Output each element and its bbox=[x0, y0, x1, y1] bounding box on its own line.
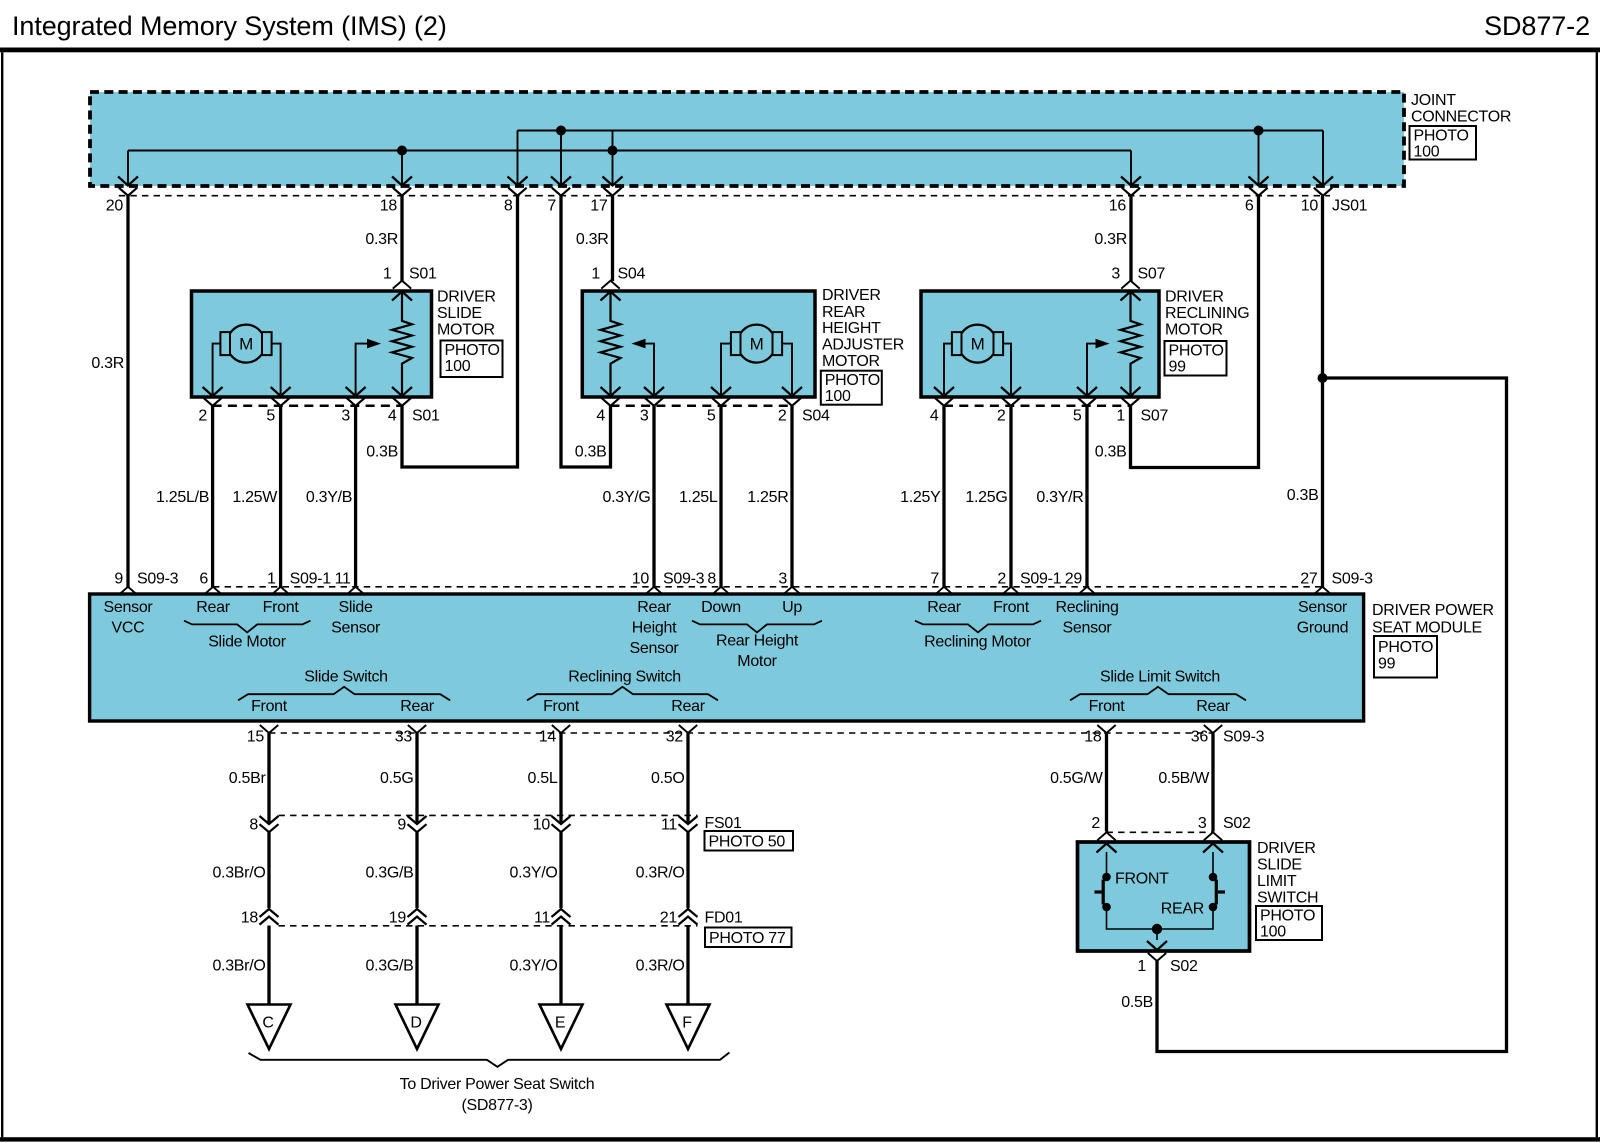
S01 bottom pin numbers 2 5 3 4 bbox=[198, 408, 397, 425]
svg-text:0.5L: 0.5L bbox=[528, 770, 558, 787]
svg-text:18: 18 bbox=[380, 198, 398, 215]
svg-text:5: 5 bbox=[266, 408, 275, 425]
svg-text:PHOTO: PHOTO bbox=[445, 342, 500, 359]
outer frame left border bbox=[1, 52, 3, 1137]
svg-text:3: 3 bbox=[1111, 266, 1120, 283]
svg-text:Sensor: Sensor bbox=[331, 620, 381, 637]
connector pin JS01-16 bbox=[1109, 151, 1141, 215]
brace slide switch bbox=[238, 687, 450, 701]
brace reclining motor bbox=[915, 621, 1041, 633]
svg-text:DRIVER: DRIVER bbox=[822, 287, 881, 304]
svg-text:0.3Y/O: 0.3Y/O bbox=[509, 865, 557, 882]
svg-text:Rear: Rear bbox=[1196, 698, 1230, 715]
wire S07 motor left lead bbox=[944, 344, 952, 394]
svg-text:9: 9 bbox=[114, 571, 123, 588]
FS01 mating dashed line bbox=[279, 814, 698, 816]
svg-text:Rear: Rear bbox=[400, 698, 434, 715]
svg-text:Rear: Rear bbox=[671, 698, 705, 715]
svg-text:0.3R: 0.3R bbox=[576, 231, 609, 248]
FS01 PHOTO 50 box bbox=[705, 831, 794, 851]
svg-text:S01: S01 bbox=[412, 408, 440, 425]
svg-text:REAR: REAR bbox=[822, 304, 865, 321]
svg-text:PHOTO: PHOTO bbox=[825, 372, 880, 389]
svg-text:1: 1 bbox=[383, 266, 392, 283]
svg-text:S09-3: S09-3 bbox=[663, 571, 705, 588]
wire S04 motor right lead bbox=[782, 344, 792, 394]
S01 PHOTO 100 box bbox=[441, 341, 503, 378]
S01 bottom mating tents and dashed line bbox=[203, 398, 411, 406]
svg-text:DRIVER: DRIVER bbox=[1257, 840, 1316, 857]
wire 0.3R JS01-18 to S01 pin 1 bbox=[400, 196, 403, 281]
S04 PHOTO 100 box bbox=[821, 371, 882, 405]
svg-text:99: 99 bbox=[1378, 656, 1396, 673]
svg-text:S07: S07 bbox=[1138, 266, 1166, 283]
wire 0.3Y/R to seat module bbox=[1085, 406, 1088, 587]
connector pins FD01-11 inline bbox=[534, 909, 571, 927]
label DRIVER RECLINING MOTOR bbox=[1165, 289, 1249, 339]
svg-text:D: D bbox=[410, 1015, 421, 1032]
svg-text:0.3Br/O: 0.3Br/O bbox=[212, 958, 265, 975]
connector pin S02-1 (bottom) bbox=[1137, 953, 1166, 975]
svg-text:0.3B: 0.3B bbox=[1095, 444, 1127, 461]
junction dot bus upper at pin 6 bbox=[1254, 126, 1264, 136]
driver rear height adjuster motor S04 box bbox=[582, 291, 815, 397]
svg-text:Sensor: Sensor bbox=[1298, 599, 1348, 616]
S07 bottom pin numbers 4 2 5 1 bbox=[930, 408, 1126, 425]
connector pin S01-1 (top) bbox=[383, 266, 412, 301]
wire 1.25L/B to seat module bbox=[211, 406, 214, 587]
S04 bottom inner arrowheads pins 4,3,5,2 bbox=[601, 387, 803, 396]
svg-text:100: 100 bbox=[445, 358, 471, 375]
svg-text:JS01: JS01 bbox=[1332, 198, 1368, 215]
svg-text:FS01: FS01 bbox=[705, 815, 742, 832]
wire 0.3Y/B to seat module bbox=[354, 406, 357, 587]
connector pin JS01-7 bbox=[547, 131, 571, 215]
svg-text:LIMIT: LIMIT bbox=[1257, 873, 1297, 890]
label DRIVER REAR HEIGHT ADJUSTER MOTOR bbox=[822, 287, 904, 370]
connector pin S09 module top pin 3 bbox=[778, 571, 801, 595]
svg-text:1: 1 bbox=[1116, 408, 1125, 425]
wire 0.5O module to FS01 bbox=[686, 733, 689, 823]
junction dot bus upper at pin 7 bbox=[556, 126, 566, 136]
svg-text:7: 7 bbox=[930, 571, 939, 588]
svg-text:ADJUSTER: ADJUSTER bbox=[822, 337, 904, 354]
module label Slide Sensor bbox=[331, 599, 381, 637]
svg-text:S09-3: S09-3 bbox=[1223, 729, 1265, 746]
connector pin S09 module top pin 8 bbox=[707, 571, 730, 595]
svg-text:20: 20 bbox=[106, 198, 124, 215]
wire 0.3R JS01-16 to S07 pin 3 bbox=[1129, 196, 1132, 281]
wire 0.3B branch to right side down to S02 pin 1 bbox=[1157, 378, 1507, 1052]
svg-text:Ground: Ground bbox=[1297, 620, 1349, 637]
svg-text:2: 2 bbox=[778, 408, 787, 425]
svg-text:11: 11 bbox=[534, 910, 550, 927]
svg-text:3: 3 bbox=[341, 408, 350, 425]
svg-text:100: 100 bbox=[1414, 144, 1440, 161]
brace slide motor bbox=[184, 621, 310, 633]
connector pins FS01-8 inline bbox=[249, 816, 278, 834]
connector pins FD01-18 inline bbox=[241, 909, 279, 927]
svg-text:RECLINING: RECLINING bbox=[1165, 305, 1249, 322]
wire 0.5G/W module 18 to S02 pin 2 bbox=[1105, 733, 1108, 832]
svg-text:Reclining Motor: Reclining Motor bbox=[924, 634, 1032, 651]
wire S01 motor left lead bbox=[213, 344, 221, 394]
wire 0.5B/W module 36 to S02 pin 3 bbox=[1211, 733, 1214, 832]
connector pins FS01-11 inline bbox=[661, 816, 698, 834]
svg-text:1: 1 bbox=[267, 571, 276, 588]
connector pin S02-3 (top) bbox=[1198, 815, 1223, 853]
svg-text:100: 100 bbox=[825, 388, 851, 405]
svg-text:0.5B: 0.5B bbox=[1121, 994, 1153, 1011]
svg-text:Front: Front bbox=[543, 698, 580, 715]
module top mating dashed line pins 6 to 27 bbox=[213, 586, 1323, 588]
module label Rear Height Sensor bbox=[630, 599, 680, 657]
joint connector mating dashed line bbox=[119, 195, 1330, 197]
wire 0.3B JS01-6 to S07 pin 1 bbox=[1131, 196, 1259, 468]
svg-text:2: 2 bbox=[997, 408, 1006, 425]
svg-text:M: M bbox=[971, 335, 985, 354]
FD01 mating dashed line bbox=[279, 925, 698, 927]
title divider line bbox=[0, 48, 1600, 53]
wire 0.3Y/O FS01 to FD01 bbox=[559, 832, 562, 908]
svg-text:10: 10 bbox=[1301, 198, 1319, 215]
resistor position-sensor element S04 bbox=[601, 293, 621, 395]
connector pins FS01-10 inline bbox=[533, 816, 571, 834]
svg-text:1: 1 bbox=[1137, 958, 1146, 975]
svg-text:Integrated Memory System (IMS): Integrated Memory System (IMS) (2) bbox=[12, 11, 447, 41]
svg-text:PHOTO 50: PHOTO 50 bbox=[709, 834, 786, 851]
svg-text:To Driver Power Seat Switch: To Driver Power Seat Switch bbox=[400, 1076, 595, 1093]
svg-text:S09-1: S09-1 bbox=[1020, 571, 1062, 588]
svg-text:S09-3: S09-3 bbox=[1332, 571, 1374, 588]
svg-text:E: E bbox=[555, 1015, 565, 1032]
brace rear height motor bbox=[692, 621, 822, 633]
outer frame right border bbox=[1596, 52, 1598, 1137]
connector pins FD01-21 inline bbox=[660, 909, 698, 927]
svg-text:Slide Limit Switch: Slide Limit Switch bbox=[1100, 669, 1220, 686]
svg-text:MOTOR: MOTOR bbox=[822, 353, 880, 370]
svg-text:29: 29 bbox=[1065, 571, 1083, 588]
connector pin S09 module top pin 27 bbox=[1300, 571, 1331, 595]
svg-text:0.3R/O: 0.3R/O bbox=[636, 865, 685, 882]
svg-text:21: 21 bbox=[660, 910, 678, 927]
wire 0.5L module to FS01 bbox=[559, 733, 562, 823]
connector pin S09-3 module bottom pin 18 bbox=[1084, 725, 1115, 746]
svg-text:6: 6 bbox=[1245, 198, 1254, 215]
connector pin JS01-6 bbox=[1245, 131, 1269, 215]
svg-text:FRONT: FRONT bbox=[1115, 871, 1169, 888]
svg-text:S09-3: S09-3 bbox=[137, 571, 179, 588]
svg-text:2: 2 bbox=[198, 408, 207, 425]
wire 0.5G module to FS01 bbox=[415, 733, 418, 823]
svg-text:16: 16 bbox=[1109, 198, 1127, 215]
connector pin S09 module top pin 10 bbox=[632, 571, 663, 595]
junction dot S02 bbox=[1152, 924, 1162, 934]
svg-text:PHOTO 77: PHOTO 77 bbox=[709, 930, 786, 947]
svg-text:0.3R: 0.3R bbox=[365, 231, 398, 248]
svg-text:2: 2 bbox=[997, 571, 1006, 588]
wire 0.3B JS01-10 to module pin 27 bbox=[1321, 196, 1324, 587]
connector pin S07-3 (top) bbox=[1111, 266, 1140, 301]
svg-text:11: 11 bbox=[335, 571, 351, 588]
svg-text:19: 19 bbox=[389, 910, 407, 927]
svg-text:Front: Front bbox=[993, 599, 1030, 616]
svg-text:Up: Up bbox=[782, 599, 802, 616]
svg-text:4: 4 bbox=[930, 408, 939, 425]
brace to driver power seat switch bbox=[249, 1053, 730, 1067]
svg-text:1.25L/B: 1.25L/B bbox=[156, 489, 209, 506]
svg-text:14: 14 bbox=[539, 729, 557, 746]
svg-text:0.3G/B: 0.3G/B bbox=[365, 865, 413, 882]
svg-text:0.3B: 0.3B bbox=[366, 444, 398, 461]
svg-text:9: 9 bbox=[397, 817, 406, 834]
svg-text:Front: Front bbox=[251, 698, 288, 715]
S04 bottom mating tents and dashed line bbox=[601, 398, 801, 406]
svg-text:SD877-2: SD877-2 bbox=[1484, 11, 1590, 41]
svg-text:C: C bbox=[262, 1015, 273, 1032]
svg-text:10: 10 bbox=[632, 571, 650, 588]
wire 1.25Y to seat module bbox=[942, 406, 945, 587]
svg-text:8: 8 bbox=[707, 571, 716, 588]
wire 1.25G to seat module bbox=[1009, 406, 1012, 587]
svg-text:0.3Y/R: 0.3Y/R bbox=[1036, 489, 1083, 506]
driver power seat module box bbox=[90, 594, 1364, 721]
S07 bottom mating tents and dashed line bbox=[935, 398, 1140, 406]
svg-text:Slide Switch: Slide Switch bbox=[304, 669, 388, 686]
svg-text:4: 4 bbox=[388, 408, 397, 425]
connector pin S09 module top pin 7 bbox=[930, 571, 953, 595]
joint connector JS01 box bbox=[90, 92, 1404, 186]
connector pin S09-3 module bottom pin 32 bbox=[666, 725, 697, 746]
svg-text:CONNECTOR: CONNECTOR bbox=[1411, 109, 1511, 126]
S02 top mating dashed line bbox=[1107, 831, 1214, 833]
S02 pin1 inner arrowhead bbox=[1147, 941, 1167, 950]
wire S04 motor left lead bbox=[721, 344, 731, 394]
svg-text:0.3Y/B: 0.3Y/B bbox=[306, 489, 352, 506]
svg-text:8: 8 bbox=[249, 817, 258, 834]
svg-text:5: 5 bbox=[707, 408, 716, 425]
connector pin JS01-8 bbox=[504, 131, 528, 215]
label DRIVER SLIDE MOTOR bbox=[437, 289, 496, 339]
svg-text:Sensor: Sensor bbox=[104, 599, 154, 616]
connector pin S09 module top pin 2 bbox=[997, 571, 1020, 595]
connector pin S09 module top pin 1 bbox=[267, 571, 290, 595]
svg-text:0.5Br: 0.5Br bbox=[229, 770, 267, 787]
connector pin S09-3 module bottom pin 14 bbox=[539, 725, 570, 746]
driver slide limit switch S02 box bbox=[1078, 842, 1250, 951]
svg-text:S02: S02 bbox=[1223, 815, 1251, 832]
wire 0.3B JS01-8 to S01 pin 4 bbox=[402, 196, 518, 467]
S01 bottom inner arrowheads pins 2,5,3,4 bbox=[203, 387, 412, 396]
connector pin S09 module top pin 11 bbox=[335, 571, 365, 595]
svg-text:0.3B: 0.3B bbox=[1287, 487, 1319, 504]
svg-text:3: 3 bbox=[640, 408, 649, 425]
module bottom mating dashed line bbox=[269, 732, 1213, 734]
svg-text:0.3G/B: 0.3G/B bbox=[365, 958, 413, 975]
svg-text:SEAT MODULE: SEAT MODULE bbox=[1372, 620, 1482, 637]
module label Rear Height Motor bbox=[716, 633, 799, 671]
off-page triangle connector C bbox=[248, 1005, 291, 1050]
connector pin S02-2 (top) bbox=[1091, 815, 1116, 853]
svg-text:Rear: Rear bbox=[927, 599, 961, 616]
S04 bottom pin numbers 4 3 5 2 bbox=[596, 408, 787, 425]
svg-text:3: 3 bbox=[1198, 815, 1207, 832]
svg-text:11: 11 bbox=[661, 817, 677, 834]
off-page triangle connector D bbox=[396, 1005, 439, 1050]
svg-text:0.3R: 0.3R bbox=[91, 355, 124, 372]
connector pin JS01-10 bbox=[1301, 131, 1333, 215]
svg-text:S04: S04 bbox=[618, 266, 646, 283]
svg-text:Sensor: Sensor bbox=[1063, 620, 1113, 637]
svg-text:Slide: Slide bbox=[339, 599, 373, 616]
wiper arrow S01 bbox=[356, 344, 368, 394]
svg-text:15: 15 bbox=[247, 729, 265, 746]
wire 0.3Br/O FS01 to FD01 bbox=[267, 832, 270, 908]
svg-text:0.3B: 0.3B bbox=[575, 444, 607, 461]
svg-text:Rear: Rear bbox=[196, 599, 230, 616]
svg-text:7: 7 bbox=[547, 198, 556, 215]
svg-text:33: 33 bbox=[395, 729, 413, 746]
resistor position-sensor element S07 bbox=[1121, 293, 1141, 395]
brace slide limit switch bbox=[1070, 687, 1246, 701]
svg-text:F: F bbox=[682, 1015, 692, 1032]
svg-text:PHOTO: PHOTO bbox=[1169, 343, 1224, 360]
svg-text:100: 100 bbox=[1260, 924, 1286, 941]
svg-text:0.5G/W: 0.5G/W bbox=[1050, 770, 1104, 787]
svg-text:1.25G: 1.25G bbox=[965, 489, 1007, 506]
junction dot sensor-ground branch bbox=[1318, 373, 1328, 383]
connector pin JS01-17 bbox=[590, 131, 622, 215]
junction dot bus lower at pin 18 bbox=[397, 146, 407, 156]
svg-text:S07: S07 bbox=[1141, 408, 1169, 425]
resistor position-sensor element S01 bbox=[392, 293, 412, 395]
svg-text:DRIVER: DRIVER bbox=[1165, 289, 1224, 306]
svg-text:Height: Height bbox=[632, 620, 677, 637]
svg-text:10: 10 bbox=[533, 817, 551, 834]
svg-text:17: 17 bbox=[590, 198, 608, 215]
svg-text:S01: S01 bbox=[409, 266, 437, 283]
svg-text:1.25Y: 1.25Y bbox=[900, 489, 941, 506]
svg-text:1.25R: 1.25R bbox=[747, 489, 788, 506]
svg-text:MOTOR: MOTOR bbox=[437, 322, 495, 339]
switch REAR limit switch bbox=[1209, 852, 1225, 911]
svg-text:S04: S04 bbox=[802, 408, 830, 425]
svg-text:S09-1: S09-1 bbox=[290, 571, 332, 588]
svg-text:0.3R: 0.3R bbox=[1094, 231, 1127, 248]
junction dot bus lower at pin 17 bbox=[608, 146, 618, 156]
off-page triangle connector E bbox=[540, 1005, 583, 1050]
svg-text:18: 18 bbox=[241, 910, 259, 927]
svg-text:M: M bbox=[750, 335, 764, 354]
svg-text:27: 27 bbox=[1300, 571, 1318, 588]
svg-text:Front: Front bbox=[1089, 698, 1126, 715]
wire JS01 internal bus upper (pins 8-7-6-10) bbox=[518, 130, 1324, 132]
connector pin S09 module top pin 6 bbox=[199, 571, 222, 595]
svg-text:(SD877-3): (SD877-3) bbox=[461, 1097, 532, 1114]
svg-text:0.5B/W: 0.5B/W bbox=[1158, 770, 1210, 787]
svg-text:2: 2 bbox=[1091, 815, 1100, 832]
svg-text:Down: Down bbox=[701, 599, 741, 616]
connector pin S09 module top pin 29 bbox=[1065, 571, 1096, 595]
label DRIVER POWER SEAT MODULE bbox=[1372, 602, 1494, 637]
driver slide motor S01 box bbox=[192, 291, 432, 397]
wiper arrow S07 bbox=[1087, 344, 1096, 394]
svg-text:6: 6 bbox=[199, 571, 208, 588]
wire 0.3R JS01-20 to module pin 9 bbox=[126, 196, 129, 587]
driver reclining motor S07 box bbox=[921, 291, 1159, 397]
wire S01 motor right lead bbox=[272, 344, 281, 394]
svg-text:8: 8 bbox=[504, 198, 513, 215]
svg-text:1.25W: 1.25W bbox=[232, 489, 278, 506]
svg-text:Front: Front bbox=[263, 599, 300, 616]
svg-text:M: M bbox=[239, 335, 253, 354]
svg-text:Motor: Motor bbox=[737, 653, 777, 670]
wire 0.3R/O FS01 to FD01 bbox=[686, 832, 689, 908]
wire 1.25L to seat module bbox=[719, 406, 722, 587]
motor M symbol S04 bbox=[731, 325, 782, 363]
svg-text:0.5O: 0.5O bbox=[651, 770, 685, 787]
svg-text:0.3Y/O: 0.3Y/O bbox=[509, 958, 557, 975]
svg-text:PHOTO: PHOTO bbox=[1378, 639, 1433, 656]
wire JS01 internal bus lower (pins 20-18-17-16) bbox=[128, 150, 1131, 152]
wire 0.5Br module to FS01 bbox=[267, 733, 270, 823]
S02 PHOTO 100 box bbox=[1256, 906, 1322, 940]
svg-text:PHOTO: PHOTO bbox=[1414, 128, 1469, 145]
FD01 PHOTO 77 box bbox=[705, 928, 792, 948]
svg-text:VCC: VCC bbox=[112, 620, 145, 637]
connector pin S09 module top pin 9 bbox=[114, 571, 137, 595]
switch FRONT limit switch bbox=[1095, 852, 1111, 911]
brace reclining switch bbox=[527, 687, 718, 701]
svg-text:REAR: REAR bbox=[1161, 901, 1204, 918]
label DRIVER SLIDE LIMIT SWITCH bbox=[1257, 840, 1318, 906]
connector pin JS01-18 bbox=[380, 151, 412, 215]
wire 1.25R to seat module bbox=[790, 406, 793, 587]
svg-text:MOTOR: MOTOR bbox=[1165, 322, 1223, 339]
wire 0.3G/B FS01 to FD01 bbox=[415, 832, 418, 908]
wire 0.3G/B FD01 to triangle bbox=[415, 926, 418, 1005]
svg-text:DRIVER: DRIVER bbox=[437, 289, 496, 306]
S07 bottom inner arrowheads pins 4,2,5,1 bbox=[934, 387, 1141, 396]
svg-text:Reclining Switch: Reclining Switch bbox=[568, 669, 681, 686]
svg-text:1.25L: 1.25L bbox=[679, 489, 718, 506]
svg-text:0.5G: 0.5G bbox=[380, 770, 414, 787]
svg-text:Reclining: Reclining bbox=[1055, 599, 1118, 616]
svg-text:S02: S02 bbox=[1170, 958, 1198, 975]
motor M symbol S01 bbox=[220, 325, 271, 363]
wire 0.3Br/O FD01 to triangle bbox=[267, 926, 270, 1005]
svg-text:32: 32 bbox=[666, 729, 684, 746]
connector pin S09-3 module bottom pin 33 bbox=[395, 725, 426, 746]
wire 0.3R/O FD01 to triangle bbox=[686, 926, 689, 1005]
connector pins FD01-19 inline bbox=[389, 909, 427, 927]
svg-text:JOINT: JOINT bbox=[1411, 92, 1456, 109]
svg-text:Rear Height: Rear Height bbox=[716, 633, 799, 650]
svg-text:Sensor: Sensor bbox=[630, 640, 680, 657]
svg-text:18: 18 bbox=[1084, 729, 1102, 746]
svg-text:5: 5 bbox=[1073, 408, 1082, 425]
module label Reclining Sensor bbox=[1055, 599, 1118, 637]
wire 0.3Y/G to seat module bbox=[652, 406, 655, 587]
svg-text:SWITCH: SWITCH bbox=[1257, 889, 1318, 906]
svg-text:Rear: Rear bbox=[637, 599, 671, 616]
svg-text:0.3Br/O: 0.3Br/O bbox=[212, 865, 265, 882]
joint connector PHOTO 100 box bbox=[1410, 126, 1477, 160]
svg-text:Slide Motor: Slide Motor bbox=[208, 634, 287, 651]
wiper arrow S04 bbox=[645, 344, 654, 394]
connector pins FS01-9 inline bbox=[397, 816, 426, 834]
svg-text:36: 36 bbox=[1191, 729, 1209, 746]
